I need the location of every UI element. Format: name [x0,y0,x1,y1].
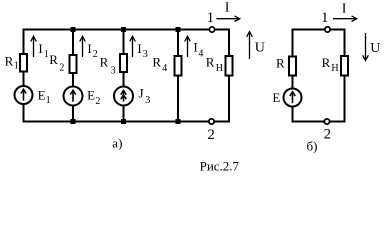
node 2 terminal (circuit a) [209,119,214,124]
wire branch 2 middle segment [72,72,74,88]
svg-text:1: 1 [321,10,329,26]
resistor R3 [120,54,127,72]
resistor R (circuit b) [289,57,296,76]
svg-text:2: 2 [95,96,100,107]
wire bottom bus (circuit b) [293,121,345,123]
svg-text:а): а) [112,136,122,151]
arrow I (circuit b) [333,18,356,20]
svg-text:I: I [38,41,42,56]
svg-text:1: 1 [14,61,19,72]
svg-text:R: R [152,54,161,69]
svg-text:Рис.2.7: Рис.2.7 [200,159,240,174]
svg-text:E: E [38,87,46,102]
arrow U (circuit a) [249,33,251,60]
wire branch 2 upper segment [72,30,74,56]
arrow I3 [132,37,134,57]
svg-text:2: 2 [207,127,215,143]
source E (circuit b) [284,89,302,107]
svg-text:I: I [342,1,347,16]
junction dot bottom branch 3 [121,119,126,124]
wire branch 3 lower segment [123,105,125,123]
arrow U (circuit b) [365,33,367,59]
current source J3 [114,87,133,106]
wire branch 2 lower segment [72,105,74,123]
svg-text:U: U [255,41,265,56]
svg-text:3: 3 [145,95,150,106]
svg-text:4: 4 [198,49,203,60]
resistor R4 [175,56,182,76]
svg-text:R: R [49,52,58,67]
arrow I4 [187,37,189,57]
svg-text:H: H [216,63,223,74]
wire branch 1 middle segment [23,71,25,87]
junction dot top branch 2 [71,27,76,32]
wire branch 3 middle segment [123,71,125,88]
resistor R2 [70,55,77,73]
junction dot bottom branch 4 [176,119,181,124]
svg-text:I: I [137,41,141,56]
svg-text:R: R [206,54,215,69]
wire top bus (circuit b) [293,29,345,31]
svg-text:R: R [276,56,285,71]
svg-text:R: R [100,54,109,69]
wire left branch (circuit b) [292,29,294,58]
junction dot top branch 3 [121,27,126,32]
svg-text:1: 1 [44,49,49,60]
resistor RH (circuit b) [341,56,348,76]
wire bottom bus (circuit a) [24,121,230,123]
svg-text:U: U [370,41,380,56]
svg-text:I: I [225,1,230,16]
resistor R1 [20,54,27,72]
svg-text:3: 3 [143,49,148,60]
svg-text:1: 1 [46,95,51,106]
node 1 terminal (circuit b) [325,27,330,32]
svg-text:E: E [272,90,280,105]
node 1 terminal (circuit a) [209,27,214,32]
svg-text:H: H [331,63,338,74]
resistor RH [226,56,233,76]
wire branch 1 lower segment [23,104,25,123]
svg-text:I: I [87,41,91,56]
source E1 [15,86,33,104]
svg-text:1: 1 [207,10,215,26]
arrow I (circuit a) [217,18,240,20]
wire branch 4 [177,30,179,58]
wire branch 3 upper segment [123,30,125,56]
junction dot top branch 4 [176,27,181,32]
wire branch 1 upper segment [23,29,25,56]
arrow I2 [82,37,84,57]
wire right branch (circuit b) [344,29,346,58]
svg-text:2: 2 [93,49,98,60]
svg-text:2: 2 [324,126,332,142]
source E2 [64,87,83,106]
svg-text:2: 2 [59,63,64,74]
arrow I1 [33,37,35,57]
svg-text:E: E [87,87,95,102]
svg-text:б): б) [307,139,318,154]
node 2 terminal (circuit b) [324,119,329,124]
junction dot bottom branch 2 [71,119,76,124]
svg-text:I: I [193,39,197,54]
svg-text:R: R [5,54,14,69]
wire top bus (circuit a) [24,29,230,31]
svg-text:R: R [322,55,331,70]
svg-text:4: 4 [162,63,167,74]
wire branch RH [228,29,230,58]
svg-text:J: J [139,86,144,101]
svg-text:3: 3 [111,65,116,76]
